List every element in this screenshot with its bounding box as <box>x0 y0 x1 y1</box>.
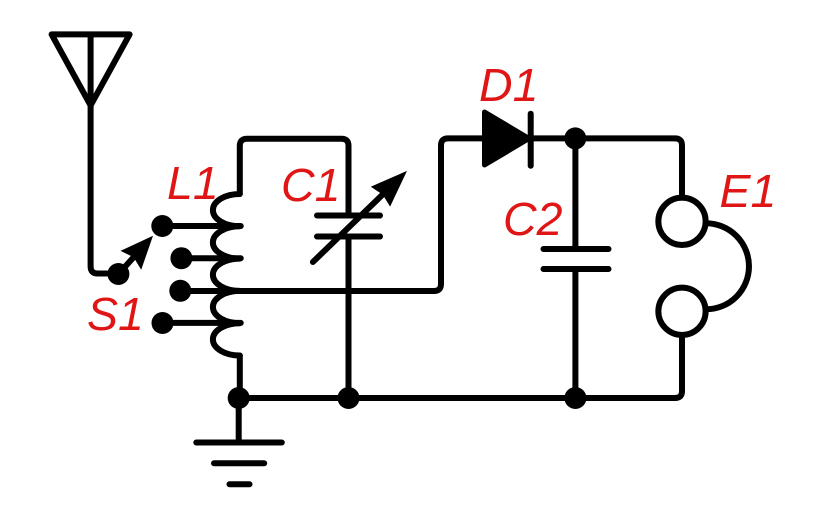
wire C1 bottom <box>346 237 352 399</box>
svg-text:D1: D1 <box>479 59 538 111</box>
wire C2 top <box>572 138 578 249</box>
diode D1 triangle <box>485 112 530 165</box>
node rail C1 <box>338 387 360 409</box>
ground <box>196 398 281 484</box>
wire D1 cathode to E1 top <box>531 138 682 197</box>
wire tap 1 <box>162 223 240 229</box>
node tap 3 <box>169 280 191 302</box>
earphone E1 band arc <box>706 223 749 309</box>
earphone E1 bottom cup <box>658 288 705 335</box>
node rail C2 <box>564 387 586 409</box>
svg-text:E1: E1 <box>720 165 777 217</box>
diode D1 cathode bar <box>528 114 534 166</box>
svg-text:C1: C1 <box>281 159 340 211</box>
capacitor C1 plates <box>317 216 380 237</box>
node tap 2 <box>170 247 192 269</box>
node tap 4 <box>152 312 174 334</box>
earphone E1 top cup <box>658 198 705 245</box>
switch S1 pole node <box>107 263 129 285</box>
svg-text:C2: C2 <box>503 193 563 245</box>
wire tap 4 <box>163 320 241 326</box>
capacitor C2 plates <box>544 249 609 269</box>
svg-text:L1: L1 <box>167 157 219 209</box>
wire L1 bottom <box>237 356 243 399</box>
wire L1 tap 3 to D1 anode <box>180 138 484 291</box>
wire antenna lead <box>91 105 107 273</box>
wire E1 bottom to ground rail <box>240 335 683 398</box>
wire L1 top to C1 top <box>240 139 349 216</box>
capacitor C1 variable arrow <box>313 171 407 262</box>
wire C2 bottom <box>572 269 578 398</box>
node rail left <box>228 387 250 409</box>
antenna <box>52 34 130 105</box>
wire tap 2 <box>181 255 240 261</box>
switch S1 arm <box>118 236 153 274</box>
node D1/C2 junction <box>564 127 586 149</box>
node tap 1 <box>151 215 173 237</box>
inductor L1 <box>213 194 240 356</box>
svg-text:S1: S1 <box>87 288 144 340</box>
